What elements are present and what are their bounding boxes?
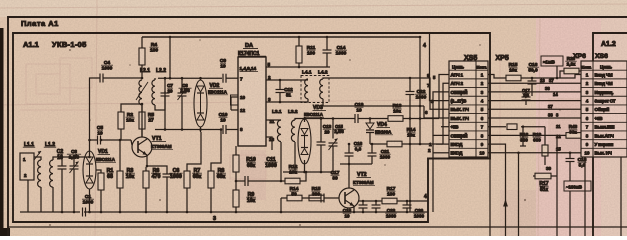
wire to XS6 row1 — [521, 75, 581, 79]
wire vertical 621 — [620, 157, 622, 236]
label R3 — [125, 168, 135, 180]
capacitor C20 — [403, 205, 412, 208]
inductor L1.2 — [50, 160, 53, 187]
label C2 — [57, 149, 64, 161]
resistor R13 — [388, 116, 403, 122]
wire full-width bottom line — [8, 226, 627, 228]
resistor R14 — [387, 141, 402, 147]
wire emitter down — [146, 155, 148, 166]
wire R12 right — [300, 172, 306, 181]
inductor L2.2 — [152, 80, 155, 105]
resistor R2 — [118, 112, 124, 129]
wire row9 out down — [488, 144, 506, 236]
resistor R14b — [287, 195, 302, 201]
connector XS5/XP5 table — [449, 61, 488, 157]
resistor R6 — [143, 171, 149, 188]
resistor R10 — [233, 155, 239, 172]
wire ground bus left — [20, 211, 80, 213]
wire pin2 to bus — [27, 180, 29, 212]
wire R5 top — [141, 104, 143, 112]
wire L4.2 out to IF — [323, 78, 410, 79]
wire L1.1 bottom — [40, 187, 42, 212]
wire pin11 to L3.1 — [266, 119, 281, 121]
wire R14 to XS5 row2 — [402, 143, 443, 145]
label R1 — [107, 168, 114, 180]
wire VT2 collector — [348, 164, 350, 188]
wire R3 top — [119, 140, 121, 171]
wire C5 to VT1 base — [101, 139, 132, 141]
wire C11 to R12 — [249, 180, 286, 182]
label R4 — [150, 42, 159, 54]
op-amp mixer chip DA К174ПС1 — [238, 57, 266, 146]
wire stub — [522, 127, 524, 146]
wire C17 to VT2 base — [324, 197, 339, 199]
measure box 1mV — [541, 56, 563, 66]
wire collector line to mixer — [155, 129, 222, 131]
block A1.1 outline — [13, 33, 490, 222]
varicap VD2 КВС111А — [194, 80, 207, 127]
wire row6 out — [488, 117, 581, 119]
wire to measure box — [556, 66, 558, 78]
wire C7 bottom — [164, 96, 166, 130]
wire L2.2 bottom — [155, 91, 165, 110]
wire row4 feed — [430, 33, 450, 101]
wire R14 to VT2 base — [302, 197, 305, 199]
wire C4 left down to VD1 node — [90, 78, 101, 140]
capacitor C8 trimmer — [178, 93, 187, 96]
label C8 — [178, 83, 191, 93]
wire varicap feed from rail — [169, 37, 171, 78]
wire row10 stub — [433, 152, 449, 154]
antenna arrow — [34, 151, 41, 160]
inductor L4.2 — [320, 79, 323, 99]
wire R10 to R9 — [235, 172, 237, 190]
resistor R43 — [566, 133, 581, 139]
wire vertical 570 — [569, 162, 571, 237]
wire R5 bottom to collector — [141, 129, 143, 137]
wire lower junction — [283, 171, 333, 173]
wire R7 bottom — [186, 188, 188, 212]
wire row5 feed — [410, 78, 449, 109]
wire R2 top to supply node — [121, 104, 142, 112]
wire L3.2 bottom — [294, 142, 296, 172]
inductor L3.1 — [277, 120, 281, 142]
transistor VT1 КТ368АМ — [132, 137, 152, 157]
capacitor C17 — [321, 194, 324, 203]
label C1 — [82, 194, 94, 206]
wire VD4 bottom — [369, 133, 371, 145]
inductor L3.2 — [291, 120, 295, 142]
wire row8 out — [488, 134, 557, 136]
resistor R20 — [564, 68, 579, 74]
wire R1 to bus — [100, 190, 102, 212]
wire pin1 to L1.1 — [34, 157, 41, 160]
wire vertical 557 — [556, 135, 558, 236]
wire pin10 down — [489, 159, 491, 237]
wire R6 bottom — [145, 188, 147, 212]
wire R7 top to VD2 bottom — [187, 132, 201, 171]
wire pin2 to L4.1 — [305, 79, 308, 81]
wire pin10 stub — [231, 96, 238, 98]
wire vertical 585 — [584, 157, 586, 236]
wire C16/C21 bottoms — [340, 163, 372, 165]
transformer L4.1 L4.2 shield box — [301, 76, 329, 103]
capacitor C18 — [359, 205, 368, 208]
wire VD1 bottom to bus — [89, 189, 91, 212]
wire supply rail — [142, 36, 420, 38]
wire row7 stub — [441, 126, 449, 128]
wire VT2 emitter to bus — [353, 206, 355, 212]
capacitor C14 — [323, 50, 332, 53]
capacitor C4 — [100, 74, 103, 83]
wire VD1 top — [89, 151, 91, 157]
wire row10 out — [488, 152, 570, 154]
resistor R17 — [382, 198, 397, 204]
block A1.2 outline — [593, 33, 627, 61]
resistor R17b — [533, 175, 557, 177]
capacitor C7 — [161, 93, 170, 96]
transistor VT2 КТ368АМ — [339, 188, 359, 208]
capacitor C19 — [355, 114, 358, 123]
wire C19 to R13 — [358, 118, 388, 120]
wire VT2 out line — [358, 200, 382, 202]
wire L2.1 to VT1 collector — [141, 105, 143, 137]
wire row4 out — [488, 100, 581, 102]
wire row2 out — [488, 82, 581, 84]
wire tank top — [53, 157, 90, 160]
wire VD1 center tap to R1 — [96, 170, 101, 174]
wire to C17 — [305, 197, 321, 199]
wire L4.1 bottom — [307, 99, 309, 102]
capacitor C13 — [317, 142, 326, 145]
capacitor C6 — [163, 174, 172, 177]
wire C4 to R4/L2.1 node — [103, 77, 142, 79]
resistor R16 — [507, 124, 517, 130]
capacitor C21 — [368, 153, 377, 156]
capacitor C18b — [566, 159, 575, 162]
tuning arrow L2.1 — [136, 82, 148, 100]
capacitor C3 trimmer — [70, 166, 79, 169]
wire C7 top — [164, 78, 166, 93]
capacitor C5 — [98, 136, 101, 145]
varicap VD1 КВС111А — [83, 151, 96, 189]
capacitor C11 — [245, 176, 248, 186]
label C6 — [169, 168, 182, 180]
capacitor C9 — [223, 74, 226, 83]
resistor R19 — [542, 145, 548, 156]
wire row2 feed — [443, 83, 449, 144]
resistor R15b — [309, 195, 324, 201]
resistor R12 — [285, 178, 300, 184]
varicap VD3 КВС111А — [298, 119, 311, 164]
label C3 — [67, 149, 81, 160]
wire L1.2 bottom — [52, 187, 54, 212]
resistor R3 — [117, 171, 123, 188]
wire chip to R10 — [235, 146, 237, 155]
resistor R5 — [139, 112, 145, 129]
wire R8 top — [211, 130, 221, 172]
label C10 — [219, 112, 228, 124]
wire row6 feed — [423, 106, 425, 118]
wire pin2 — [266, 79, 305, 81]
label L1.1 — [23, 142, 35, 148]
wire R13 to XS5 row1 — [403, 118, 439, 120]
label R5 — [148, 112, 154, 124]
wire pin12 stub — [231, 109, 238, 111]
wire VD1 to C5 — [90, 140, 98, 151]
wire R9 to bus — [235, 207, 237, 212]
measure box 160mV — [564, 181, 591, 191]
wire L2.2 top — [154, 78, 156, 80]
capacitor C1 — [83, 208, 86, 217]
wire tank2 top to pin 7 — [158, 77, 222, 79]
wire pin13 — [266, 137, 272, 150]
inductor L1.1 — [38, 160, 41, 187]
resistor R11 — [296, 46, 302, 63]
connector XP6/XS6 table — [581, 61, 627, 157]
wire R4 bottom — [141, 65, 143, 78]
wire R4 top to rail — [141, 37, 143, 48]
wire to bus — [280, 198, 282, 212]
wire row1 feed — [439, 75, 449, 119]
resistor R1 — [98, 173, 104, 190]
wire base — [131, 140, 132, 145]
wire C8 top — [181, 78, 183, 90]
wire C8 bottom — [181, 96, 183, 130]
varicap VD4 КВ109А — [366, 123, 374, 133]
wire IF tank top — [295, 119, 353, 121]
wire R8 bottom — [210, 188, 212, 212]
wire row9 stub — [436, 143, 449, 145]
capacitor C2 — [58, 166, 67, 169]
capacitor C15 trimmer — [329, 143, 338, 146]
resistor R7 — [184, 171, 190, 188]
wire C10 to pin 8 — [227, 129, 239, 131]
resistor R8 — [208, 171, 214, 188]
capacitor C17b — [522, 97, 531, 100]
resistor R15 — [506, 75, 521, 81]
wire VD2 top — [200, 78, 202, 80]
capacitor C10 — [223, 125, 226, 134]
capacitor C16 — [528, 81, 537, 84]
label R2 — [126, 112, 135, 124]
wire row3 out — [488, 91, 581, 93]
wire pin3 — [266, 101, 308, 103]
capacitor C23 — [372, 205, 381, 208]
arrow up — [503, 199, 508, 207]
scan edge left — [0, 28, 4, 236]
wire row1 out — [488, 75, 506, 79]
capacitor C16b — [345, 153, 354, 156]
wire L4.2 lower out — [323, 99, 424, 106]
wire ground bus right — [84, 211, 428, 213]
capacitor C22 — [406, 92, 415, 95]
chip side tab — [231, 95, 239, 105]
wire pin5 — [266, 66, 330, 68]
wire row7 out +5V — [488, 126, 506, 128]
wire R3 bottom — [119, 188, 121, 212]
wire rail to varicap feed — [419, 37, 421, 144]
wire row5 out — [488, 108, 581, 110]
bus junction dots — [61, 211, 64, 214]
wire row3 ground feed — [433, 92, 449, 135]
capacitor C12 — [276, 90, 285, 93]
wire R2 to base node — [120, 129, 122, 140]
wire VD3 top — [304, 119, 306, 123]
wire emitter to C6 — [147, 166, 167, 174]
resistor R4 — [139, 48, 145, 65]
connector XW1 antenna input — [20, 153, 34, 180]
wire vertical 518.5 — [518, 153, 520, 236]
inductor L4.1 — [305, 79, 308, 99]
resistor R9 — [233, 190, 239, 207]
wire VD3 bottom — [304, 160, 306, 172]
wire L3.1 bottom — [280, 142, 282, 181]
label L1.2 — [44, 142, 56, 148]
wire C6 bottom — [166, 177, 168, 212]
inductor L2.1 — [139, 80, 142, 105]
